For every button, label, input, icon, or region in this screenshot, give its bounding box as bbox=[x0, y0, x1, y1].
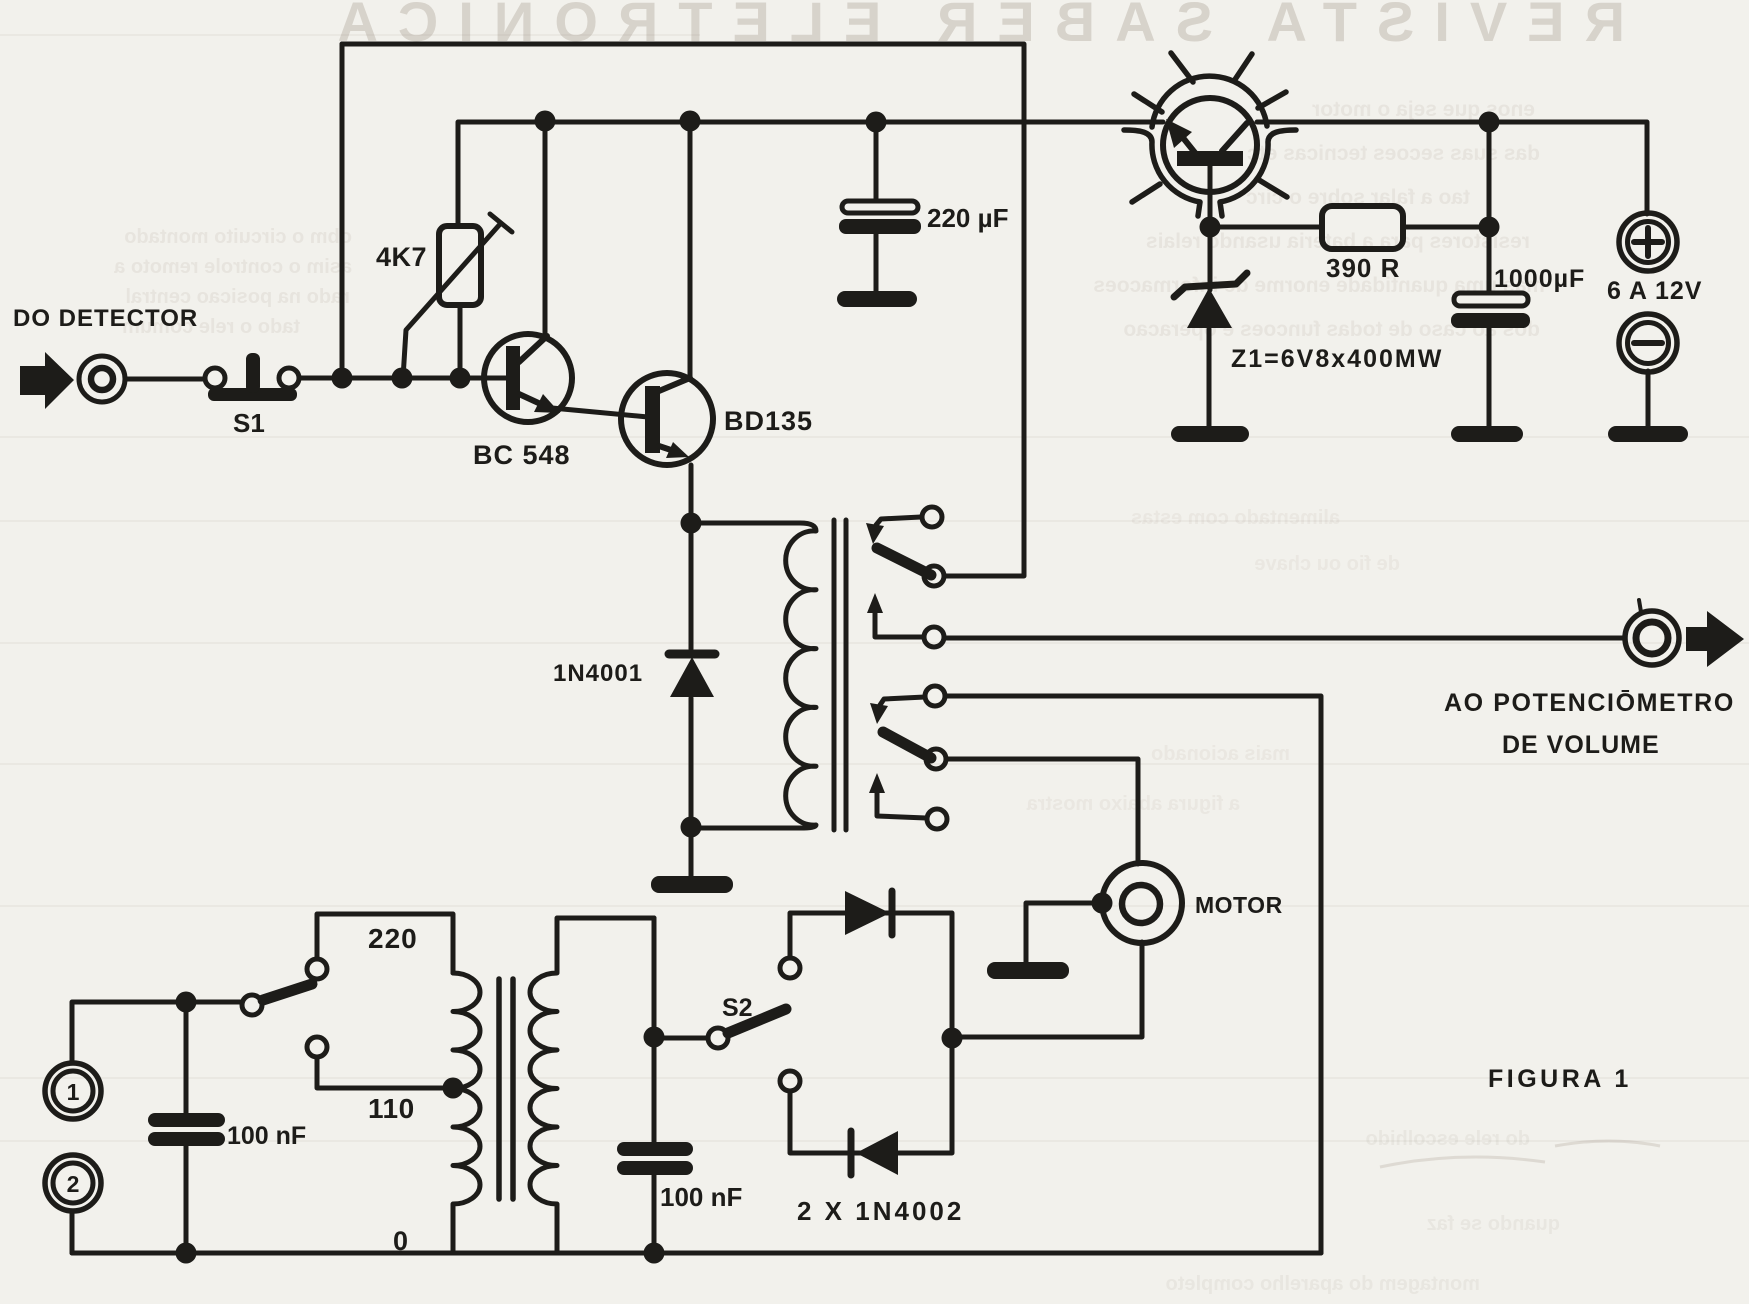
transistor BD135 bbox=[621, 373, 713, 465]
wire bus2 left segment bbox=[458, 122, 1163, 226]
relay contact c6 bbox=[927, 809, 947, 829]
svg-text:BD135: BD135 bbox=[724, 406, 813, 436]
svg-text:obm o circuito montado: obm o circuito montado bbox=[124, 226, 352, 248]
input jack J1 bbox=[79, 356, 125, 402]
power transistor Q3 (highlighted) bbox=[1124, 53, 1296, 216]
node base of power transistor bbox=[1200, 217, 1221, 238]
relay pole1 arrow shaft bbox=[875, 608, 924, 637]
wire motor bottom to diode bridge bbox=[952, 942, 1142, 1037]
wire 4K7 bottom bbox=[458, 305, 463, 378]
relay pole2 blade bbox=[883, 732, 931, 758]
svg-text:de fio ou chave: de fio ou chave bbox=[1254, 553, 1400, 575]
relay pole2 up arrowhead bbox=[869, 773, 885, 793]
wire bus2 right segment bbox=[1257, 122, 1647, 214]
capacitor 100nF primary bbox=[148, 1113, 225, 1146]
relay pole1 blade bbox=[877, 548, 931, 575]
wire big transistor base bbox=[1208, 166, 1213, 290]
node relay coil bottom bbox=[681, 817, 702, 838]
wire 390R right bbox=[1403, 225, 1489, 230]
wire BD135 emitter down through 1N4001 to ground bbox=[689, 465, 694, 877]
svg-text:1: 1 bbox=[67, 1079, 80, 1105]
node 110 tap on coil bbox=[443, 1078, 464, 1099]
motor M1 bbox=[1102, 863, 1182, 943]
wire top bus with riser to relay contact bbox=[342, 44, 1024, 576]
relay pole1 NC stub bbox=[876, 517, 921, 525]
relay contact c3 bbox=[924, 627, 944, 647]
switch S2 bottom contact bbox=[780, 1071, 800, 1091]
output jack to potentiometer bbox=[1625, 600, 1679, 665]
relay contact c2 bbox=[924, 566, 944, 586]
relay contact c4 bbox=[925, 686, 945, 706]
transformer secondary coil bbox=[530, 918, 654, 1253]
node relay coil top bbox=[681, 513, 702, 534]
wire motor left to ground bbox=[1026, 903, 1102, 962]
svg-text:2 X 1N4002: 2 X 1N4002 bbox=[797, 1196, 964, 1226]
svg-text:110: 110 bbox=[368, 1093, 415, 1124]
svg-text:enos que seja o motor: enos que seja o motor bbox=[1312, 98, 1535, 121]
node 390R right bbox=[1479, 217, 1500, 238]
svg-text:BC 548: BC 548 bbox=[473, 440, 571, 470]
switch S2 pivot bbox=[708, 1028, 728, 1048]
ground under relay coil bbox=[651, 876, 733, 893]
wire 390R left bbox=[1210, 225, 1322, 230]
switch S2 top contact bbox=[780, 958, 800, 978]
node bus2 junctions bbox=[535, 111, 556, 132]
svg-text:1000µF: 1000µF bbox=[1494, 265, 1585, 293]
wire 220 tap bbox=[317, 914, 453, 973]
svg-text:Z1=6V8x400MW: Z1=6V8x400MW bbox=[1231, 345, 1443, 373]
svg-text:1N4001: 1N4001 bbox=[553, 660, 643, 687]
relay pole2 stub arrowhead bbox=[870, 703, 888, 724]
wire BC548 collector riser bbox=[543, 121, 548, 338]
svg-text:100 nF: 100 nF bbox=[660, 1182, 742, 1212]
ground under minus terminal bbox=[1608, 426, 1688, 442]
voltage selector 110 contact bbox=[307, 1037, 327, 1057]
wire minus terminal to ground bbox=[1646, 371, 1651, 427]
diode loop rectangle bbox=[790, 913, 952, 1153]
node mains top bbox=[176, 992, 197, 1013]
svg-text:a figura abaixo mostra: a figura abaixo mostra bbox=[1026, 793, 1240, 815]
wire input jack to S1 bbox=[125, 377, 205, 382]
output arrow bbox=[1686, 611, 1744, 667]
relay core bbox=[834, 520, 846, 830]
voltage selector pivot bbox=[242, 995, 262, 1015]
wire 100nF1 risers bbox=[184, 1002, 189, 1253]
wire 1000uF riser bbox=[1487, 122, 1492, 293]
transformer primary coil bbox=[453, 973, 480, 1253]
relay pole2 arrow shaft bbox=[877, 787, 926, 818]
svg-text:390 R: 390 R bbox=[1326, 253, 1400, 283]
ground under 1000uF bbox=[1451, 426, 1523, 442]
node secondary bottom bbox=[644, 1243, 665, 1264]
svg-text:220: 220 bbox=[368, 923, 418, 954]
transistor BC548 bbox=[484, 334, 572, 422]
relay coil RL1 bbox=[691, 523, 816, 828]
svg-text:alimentado com estas: alimentado com estas bbox=[1131, 507, 1340, 529]
svg-text:S2: S2 bbox=[722, 994, 753, 1022]
ground under motor wire bbox=[987, 962, 1069, 979]
zener diode Z1 bbox=[1174, 273, 1247, 328]
svg-text:6 A 12V: 6 A 12V bbox=[1607, 277, 1702, 305]
ground under 220uF bbox=[837, 291, 917, 307]
diode 1N4001 bbox=[669, 654, 715, 697]
resistor 390R bbox=[1322, 206, 1403, 249]
node motor left bbox=[1092, 893, 1113, 914]
GHOSTS bbox=[317, 0, 1625, 53]
capacitor 1000uF bbox=[1451, 293, 1530, 328]
svg-text:2: 2 bbox=[67, 1171, 80, 1197]
trimmer resistor 4K7 bbox=[403, 214, 512, 378]
pushbutton S1 bbox=[205, 353, 299, 401]
wire 1000uF to ground bbox=[1487, 328, 1492, 427]
relay pole1 output wire to potentiometer jack bbox=[944, 636, 1625, 641]
svg-text:das suas secoes tecnicas etc: das suas secoes tecnicas etc bbox=[1247, 142, 1540, 165]
relay pole2 c4 wire down to bottom bus bbox=[945, 696, 1321, 1253]
wire terminal2 to bottom bus bbox=[70, 1211, 75, 1253]
wire zener to ground bbox=[1207, 329, 1212, 427]
wire 110 tap bbox=[317, 1057, 453, 1088]
capacitor 220uF bbox=[839, 201, 921, 234]
svg-text:220 µF: 220 µF bbox=[927, 203, 1008, 233]
voltage selector 220 contact bbox=[307, 959, 327, 979]
relay pole1 stub arrowhead bbox=[866, 523, 884, 544]
node S2 tap bbox=[644, 1027, 665, 1048]
svg-text:100 nF: 100 nF bbox=[227, 1122, 306, 1150]
wire BC548 emitter to BD135 base bbox=[552, 408, 648, 417]
wire 220uF to ground bbox=[874, 233, 879, 291]
svg-text:FIGURA 1: FIGURA 1 bbox=[1488, 1065, 1632, 1093]
node mains bottom bbox=[176, 1243, 197, 1264]
relay pole2 c5 wire to motor bbox=[946, 759, 1138, 864]
svg-text:0: 0 bbox=[393, 1226, 408, 1256]
relay contact c5 bbox=[926, 749, 946, 769]
svg-text:MOTOR: MOTOR bbox=[1195, 892, 1283, 918]
svg-text:S1: S1 bbox=[233, 408, 265, 438]
node diode bridge right bbox=[942, 1028, 963, 1049]
svg-text:AO POTENCIŌMETRO: AO POTENCIŌMETRO bbox=[1444, 689, 1735, 717]
transformer core bbox=[499, 979, 513, 1199]
diode D1 1N4002 top bbox=[845, 891, 892, 935]
wire S2 common bbox=[663, 1036, 708, 1041]
terminal 1 bbox=[45, 1063, 101, 1119]
wire BD135 collector riser bbox=[688, 121, 693, 377]
svg-text:DO DETECTOR: DO DETECTOR bbox=[13, 305, 198, 332]
plus terminal bbox=[1619, 213, 1677, 271]
input arrow DO DETECTOR bbox=[20, 352, 74, 409]
svg-text:asim o controle remoto a: asim o controle remoto a bbox=[113, 256, 352, 278]
wire left riser base-line to top bus bbox=[340, 44, 345, 378]
wire base line bbox=[299, 376, 508, 381]
wire secondary right riser through 100nF2 bbox=[652, 918, 657, 1253]
svg-text:montagem do aparelho completo: montagem do aparelho completo bbox=[1166, 1273, 1480, 1295]
wire 220uF top bbox=[874, 122, 879, 201]
switch S2 blade bbox=[728, 1009, 786, 1033]
bottom bus bbox=[72, 1251, 1321, 1256]
svg-text:DE VOLUME: DE VOLUME bbox=[1502, 731, 1660, 759]
relay contact c1 bbox=[922, 507, 942, 527]
ground under zener bbox=[1171, 426, 1249, 442]
svg-text:mais acionado: mais acionado bbox=[1151, 743, 1290, 765]
wire mains input to selector bbox=[72, 1002, 242, 1063]
svg-text:do rele escolhido: do rele escolhido bbox=[1366, 1128, 1530, 1150]
svg-text:4K7: 4K7 bbox=[376, 242, 427, 272]
node base line junctions bbox=[332, 368, 353, 389]
relay pole1 up arrowhead bbox=[867, 593, 883, 613]
voltage selector blade bbox=[263, 984, 312, 1000]
svg-text:quando se faz: quando se faz bbox=[1427, 1213, 1560, 1235]
minus terminal bbox=[1619, 314, 1677, 372]
terminal 2 bbox=[45, 1155, 101, 1211]
diode D2 1N4002 bottom bbox=[851, 1131, 898, 1175]
capacitor 100nF secondary bbox=[617, 1142, 693, 1175]
relay pole2 NC stub bbox=[880, 697, 925, 705]
